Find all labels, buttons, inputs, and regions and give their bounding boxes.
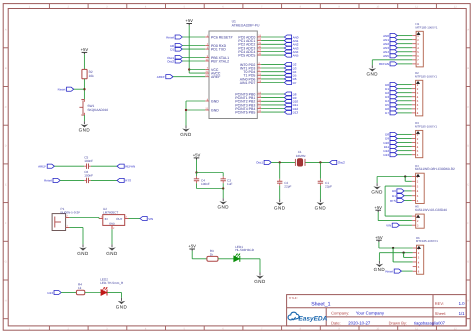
svg-text:D1: D1 [170,47,174,51]
svg-text:GND: GND [211,108,219,112]
svg-text:REV:: REV: [435,301,444,306]
svg-text:AN5: AN5 [293,53,299,57]
svg-text:MTF185-106SY1: MTF185-106SY1 [415,124,437,128]
svg-text:AREF: AREF [157,75,165,79]
svg-text:BU00N-5-0-2P: BU00N-5-0-2P [61,210,81,214]
svg-text:B: B [5,67,7,70]
svg-text:PCINT5 PB5: PCINT5 PB5 [235,110,255,114]
svg-text:1/1: 1/1 [459,311,466,316]
svg-text:PB7 XTAL2: PB7 XTAL2 [211,59,229,63]
svg-text:VIN: VIN [386,223,391,227]
svg-text:D0: D0 [392,189,396,193]
svg-text:GND: GND [77,251,89,256]
svg-text:2020-10-27: 2020-10-27 [348,321,371,326]
svg-text:GND: GND [79,128,91,133]
svg-text:GND: GND [374,267,386,272]
svg-text:PC5 ADC5: PC5 ADC5 [238,53,255,57]
svg-text:1k: 1k [78,286,82,290]
svg-text:100nF: 100nF [84,159,93,163]
svg-text:MTF185-106SY1: MTF185-106SY1 [416,25,438,29]
svg-text:GND: GND [116,304,128,309]
svg-text:+5V: +5V [185,18,193,23]
svg-text:Osc2: Osc2 [167,59,174,63]
svg-text:GND: GND [211,99,219,103]
svg-text:GND: GND [367,72,379,77]
svg-text:Osc2: Osc2 [338,161,345,165]
svg-text:D13: D13 [293,110,299,114]
svg-text:GND: GND [274,206,286,211]
svg-text:Sheet:: Sheet: [435,311,447,316]
svg-text:GND: GND [106,251,118,256]
svg-text:Your Company: Your Company [356,311,385,316]
svg-text:Reset: Reset [385,269,393,273]
svg-text:+5V: +5V [374,205,382,210]
svg-text:Reset: Reset [44,179,52,183]
svg-text:100nF: 100nF [84,173,93,177]
svg-text:SKQKAAD010: SKQKAAD010 [87,108,108,112]
svg-text:RTS: RTS [390,199,396,203]
svg-text:H: H [467,299,469,302]
svg-text:+5V: +5V [375,235,383,240]
svg-text:OUT: OUT [116,217,123,221]
svg-text:G: G [5,261,7,264]
svg-text:AREF: AREF [38,164,46,168]
svg-text:Osc1: Osc1 [256,161,263,165]
svg-text:Reset: Reset [58,87,66,91]
svg-text:PD1 TXD: PD1 TXD [211,47,226,51]
svg-text:E: E [5,183,7,186]
svg-text:D1: D1 [392,194,396,198]
svg-text:1k: 1k [210,252,214,256]
svg-text:Drawn By:: Drawn By: [389,321,407,326]
svg-text:22pF: 22pF [325,184,332,188]
svg-text:64S11WV-08-C28D40: 64S11WV-08-C28D40 [415,208,447,212]
svg-text:TITLE:: TITLE: [289,296,298,300]
svg-text:100nF: 100nF [201,182,210,186]
svg-text:Sheet_1: Sheet_1 [311,301,330,307]
svg-text:G: G [467,261,469,264]
svg-text:+5V: +5V [188,244,196,249]
svg-text:16MHz: 16MHz [296,154,306,158]
svg-text:H: H [5,299,7,302]
svg-text:D: D [467,145,469,148]
svg-text:E: E [467,183,469,186]
svg-text:B: B [467,67,469,70]
svg-text:1.0: 1.0 [459,301,466,306]
svg-text:AN5: AN5 [383,54,389,58]
svg-text:REFAN: REFAN [379,62,389,66]
svg-text:A: A [467,29,469,32]
svg-text:MTF185-106SY1: MTF185-106SY1 [415,74,437,78]
svg-text:64S11WR-08H-C30D60-R2: 64S11WR-08H-C30D60-R2 [415,167,455,171]
svg-text:LM7805CT: LM7805CT [103,210,118,214]
svg-text:PC6 RESET#: PC6 RESET# [211,35,232,39]
svg-text:C: C [467,106,469,109]
svg-text:C: C [5,106,7,109]
svg-text:GND: GND [371,190,383,195]
svg-text:Date:: Date: [331,321,341,326]
svg-text:IN: IN [105,217,108,221]
svg-text:REFAN: REFAN [125,164,135,168]
svg-text:RTS: RTS [125,179,131,183]
svg-text:D7: D7 [293,81,297,85]
svg-text:D13: D13 [47,291,53,295]
svg-text:10k: 10k [89,74,95,78]
svg-text:EasyEDA: EasyEDA [298,316,327,323]
svg-text:ATMEGA328P-PU: ATMEGA328P-PU [232,24,260,28]
svg-text:HL-503H3GD: HL-503H3GD [235,248,255,252]
svg-text:GND: GND [315,206,327,211]
svg-text:GND: GND [180,132,192,137]
svg-text:1uF: 1uF [227,182,232,186]
svg-text:tiagobasaglia007: tiagobasaglia007 [414,321,446,326]
svg-text:+5V: +5V [193,153,201,158]
svg-text:AIN1 PD7: AIN1 PD7 [240,81,256,85]
svg-text:VIN: VIN [148,217,153,221]
svg-text:GND: GND [109,222,115,225]
svg-text:D: D [5,145,7,148]
svg-text:Company:: Company: [331,311,349,316]
svg-text:A: A [5,29,7,32]
svg-text:D13: D13 [383,153,389,157]
svg-text:AREF: AREF [211,75,220,79]
svg-text:D7: D7 [385,111,389,115]
svg-text:LED-TH-5mm_R: LED-TH-5mm_R [100,281,124,285]
svg-text:+5V: +5V [81,47,89,52]
svg-text:22pF: 22pF [284,184,291,188]
svg-text:MTF185-106SY1: MTF185-106SY1 [416,239,438,243]
svg-text:GND: GND [254,279,266,284]
svg-text:Reset: Reset [166,35,174,39]
svg-text:GND: GND [217,205,229,210]
